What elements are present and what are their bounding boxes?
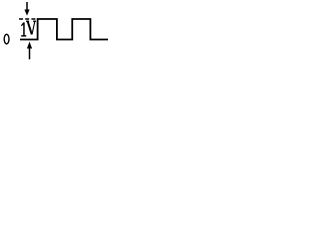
- node label 0: [4, 34, 9, 44]
- node down-arrow head: [24, 10, 29, 16]
- node high-level dashed reference line: [19, 18, 36, 20]
- node up-arrow head: [27, 42, 32, 49]
- wire up-arrow shaft: [29, 48, 31, 59]
- node label 1V : letter V (serif): [26, 21, 36, 34]
- node label 1V : digit 1 (serif): [21, 22, 26, 36]
- wire down-arrow shaft: [26, 2, 28, 10]
- wire square-wave waveform: [20, 19, 108, 40]
